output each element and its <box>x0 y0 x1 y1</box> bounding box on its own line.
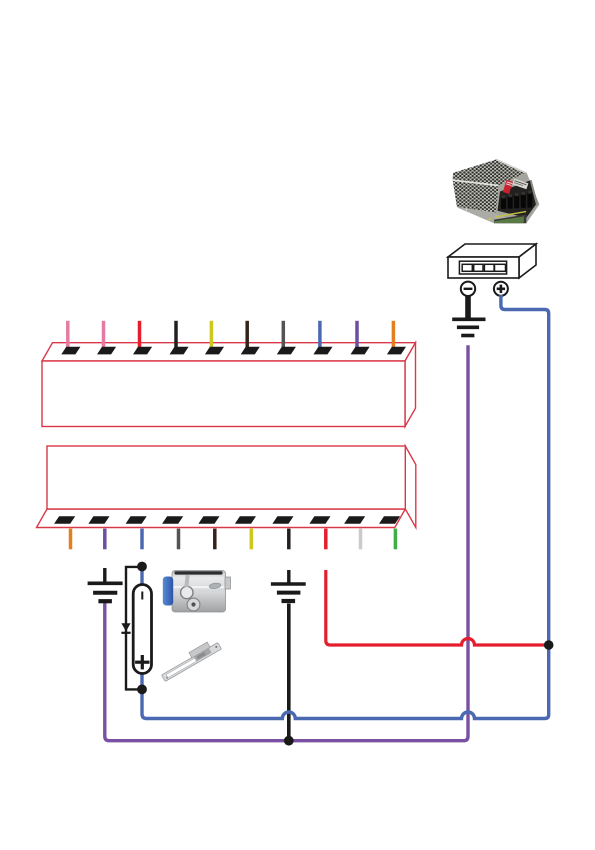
CON1 pin 9 (black pad on top face) <box>351 347 370 355</box>
CON1 pin 10 (black pad on top face) <box>387 347 406 355</box>
wire stub at CON2 pin 6 (#cdc81e) <box>250 529 254 550</box>
connector block CON1 (top, 3D red outline) <box>42 343 416 427</box>
ground GND2 (left, for lock circuit purple wire) <box>88 568 123 601</box>
node: junction dot blue/diode top <box>137 562 147 572</box>
wire stub at CON1 pin 1 (#e57ba2) <box>66 321 70 349</box>
CON1 pin 6 (black pad on top face) <box>241 347 260 355</box>
terminal minus (-) of interface box <box>461 282 475 296</box>
wire stub at CON2 pin 4 (#545456) <box>177 529 181 550</box>
power supply unit PSU1 (photo, 12V switching supply) <box>453 159 540 223</box>
CON2 pin 6 (black pad on bottom face) <box>235 516 256 524</box>
CON2 pin 8 (black pad on bottom face) <box>309 516 330 524</box>
strike plate with latch (photo) <box>159 638 222 682</box>
node: junction dot blue/diode bottom <box>137 685 147 695</box>
CON1 pin 3 (black pad on top face) <box>133 347 152 355</box>
wire stub at CON1 pin 6 (#33231a) <box>245 321 249 349</box>
CON1 pin 5 (black pad on top face) <box>205 347 224 355</box>
wire stub at CON1 pin 7 (#545456) <box>282 321 286 349</box>
wire: blue segment junction dot to lock capsule top <box>140 567 143 586</box>
CON1 pin 4 (black pad on top face) <box>170 347 189 355</box>
wire stub at CON1 pin 2 (#e57ba2) <box>102 321 106 349</box>
wire stub at CON1 pin 3 (#e51e2d) <box>138 321 142 349</box>
wire stub at CON2 pin 2 (#6c4fa1) <box>103 529 107 550</box>
wire stub at CON1 pin 4 (#231f20) <box>174 321 178 349</box>
CON1 pin 1 (black pad on top face) <box>61 347 80 355</box>
node: junction dot red meets blue +12V <box>544 640 554 650</box>
CON1 pin 7 (black pad on top face) <box>277 347 296 355</box>
CON2 pin 1 (black pad on bottom face) <box>54 516 75 524</box>
wire stub at CON2 pin 8 (#e51e2d) <box>324 529 328 550</box>
wire: blue +12V from plus terminal to lock (with hops over purple and black) <box>142 295 549 719</box>
wire stub at CON2 pin 1 (#e2801f) <box>69 529 73 550</box>
polarity label minus (inside capsule top) <box>141 592 143 600</box>
connector block CON2 (bottom, 3D red outline) <box>37 446 416 528</box>
CON2 pin 3 (black pad on bottom face) <box>126 516 147 524</box>
interface/control box (3D outline drawing) <box>448 244 536 278</box>
CON1 pin 8 (black pad on top face) <box>313 347 332 355</box>
CON2 pin 9 (black pad on bottom face) <box>344 516 365 524</box>
wire stub at CON1 pin 5 (#cdc81e) <box>210 321 214 349</box>
wire stub at CON2 pin 7 (#231f20) <box>287 529 291 550</box>
diode D1 symbol (cathode up) <box>121 623 130 633</box>
blue release tab of lock (photo) <box>163 577 173 606</box>
CON2 pin 10 (black pad on bottom face) <box>379 516 400 524</box>
wire: blue segment lock capsule bottom to junction dot <box>140 673 143 690</box>
polarity label plus (inside capsule bottom) <box>135 655 149 669</box>
electric lock coil symbol (capsule) with polarity marks <box>133 585 151 674</box>
wire: minus terminal down to ground symbol (thick black) <box>465 296 471 318</box>
wire stub at CON2 pin 9 (#c9cbcd) <box>359 529 363 550</box>
node: junction dot black GND3 meets purple bus <box>284 736 294 746</box>
wire stub at CON2 pin 3 (#4a69b1) <box>140 529 144 550</box>
wire: black from GND3 down to junction on purple bus <box>287 604 291 741</box>
CON2 pin 5 (black pad on bottom face) <box>198 516 219 524</box>
diode D1 (flyback, parallel with lock) branch wiring <box>126 567 142 690</box>
CON2 pin 7 (black pad on bottom face) <box>272 516 293 524</box>
wire stub at CON2 pin 10 (#3fae47) <box>394 529 398 550</box>
terminal plus (+) of interface box <box>494 282 508 296</box>
wire: red from bottom connector pin 8 to +12V node (hop over purple) <box>326 570 549 645</box>
electric rim lock (photo) <box>172 571 231 613</box>
wire stub at CON1 pin 9 (#6c4fa1) <box>355 321 359 349</box>
terminal strip on interface box <box>459 261 506 274</box>
wire stub at CON1 pin 10 (#e2801f) <box>392 321 396 349</box>
wire stub at CON1 pin 8 (#4a69b1) <box>318 321 322 349</box>
wire: purple ground bus (GND1 down, left along bottom, up to left ground) <box>105 345 468 741</box>
ground GND1 (power supply negative) <box>452 319 485 335</box>
wire stub at CON2 pin 5 (#33231a) <box>213 529 217 550</box>
CON2 pin 4 (black pad on bottom face) <box>162 516 183 524</box>
CON1 pin 2 (black pad on top face) <box>97 347 116 355</box>
CON2 pin 2 (black pad on bottom face) <box>88 516 109 524</box>
ground GND3 (middle, black wire to bottom bus) <box>271 570 306 601</box>
